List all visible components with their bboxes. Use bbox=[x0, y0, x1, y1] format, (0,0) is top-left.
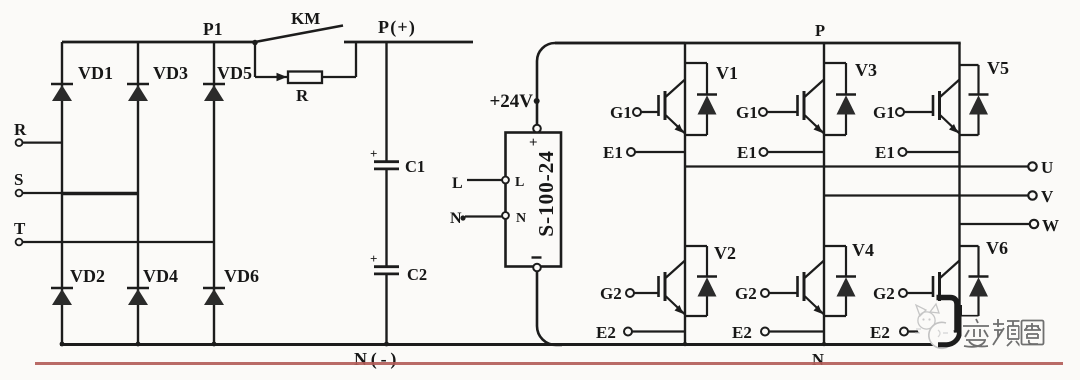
junction: P1 tap to KM and resistor bbox=[252, 40, 258, 46]
diode VD4 bbox=[127, 266, 178, 305]
wire: gate lead G2 leg 2 bbox=[769, 292, 798, 294]
svg-text:E2: E2 bbox=[870, 323, 890, 342]
output terminal U bbox=[1028, 158, 1053, 177]
svg-text:V1: V1 bbox=[716, 63, 738, 83]
transistor V1 (IGBT, upper leg 1) bbox=[659, 63, 739, 134]
wire: gate lead G1 leg 1 bbox=[641, 111, 659, 113]
svg-text:R: R bbox=[14, 120, 27, 139]
diode VD5 bbox=[203, 63, 252, 101]
svg-text:VD4: VD4 bbox=[143, 266, 178, 286]
wire: gate lead G2 leg 1 bbox=[634, 292, 659, 294]
wire: P(+) bus bbox=[344, 41, 473, 44]
watermark text: pin (频) bbox=[991, 317, 1021, 347]
terminal G2 (leg 1) bbox=[600, 284, 634, 303]
svg-text:E2: E2 bbox=[596, 323, 616, 342]
wire: inverter leg 1 vertical (collector-emitter rail) bbox=[684, 43, 686, 345]
wire: N lead bbox=[465, 215, 502, 217]
output terminal W bbox=[1030, 216, 1059, 235]
watermark logo icon (cat in circle) bbox=[915, 304, 954, 348]
transistor V6 (IGBT, lower leg 3) bbox=[933, 238, 1008, 301]
svg-text:G1: G1 bbox=[873, 103, 895, 122]
contactor KM (open blade) bbox=[255, 9, 343, 42]
watermark text: bian (变) bbox=[962, 317, 991, 347]
terminal G2 (leg 2) bbox=[735, 284, 769, 303]
diode across V1 (freewheel) bbox=[685, 63, 717, 135]
terminal E2 (leg 1) bbox=[596, 323, 632, 342]
wire: capacitor branch from P(+) bus to N(-) bus bbox=[385, 42, 387, 162]
wire: L lead bbox=[467, 179, 502, 181]
wire: rectifier column 2 bbox=[137, 42, 139, 345]
wire: V phase output bbox=[824, 194, 1028, 196]
terminal G1 (leg 3) bbox=[873, 103, 904, 122]
wire: W phase output bbox=[960, 223, 1030, 225]
svg-text:E1: E1 bbox=[603, 143, 623, 162]
svg-text:V2: V2 bbox=[714, 243, 736, 263]
pin: module + output bbox=[533, 125, 541, 133]
input terminal T bbox=[14, 219, 26, 245]
svg-text:W: W bbox=[1042, 216, 1059, 235]
capacitor C2 bbox=[370, 251, 427, 284]
diode VD6 bbox=[203, 266, 259, 305]
svg-text:P(+): P(+) bbox=[378, 17, 416, 38]
svg-text:V4: V4 bbox=[852, 240, 874, 260]
diode across V2 (freewheel) bbox=[685, 246, 717, 316]
wire: top bus P1 (rectifier positive rail) bbox=[62, 41, 255, 44]
svg-text:G1: G1 bbox=[610, 103, 632, 122]
wire: emitter lead E2 leg 2 bbox=[769, 330, 824, 332]
pin: module L input bbox=[502, 177, 509, 184]
svg-text:L: L bbox=[515, 175, 524, 190]
wire: inverter leg 3 vertical (collector-emitter rail) bbox=[958, 43, 960, 333]
wire: R phase to column 1 bbox=[22, 142, 62, 144]
svg-text:V5: V5 bbox=[987, 58, 1009, 78]
svg-text:E1: E1 bbox=[737, 143, 757, 162]
diode VD3 bbox=[127, 63, 188, 101]
wire: emitter lead E1 leg 3 bbox=[907, 151, 960, 153]
diode across V5 (freewheel) bbox=[960, 65, 989, 135]
wire: to resistor left bbox=[255, 76, 288, 78]
svg-text:VD5: VD5 bbox=[217, 63, 252, 83]
diode VD2 bbox=[51, 266, 105, 305]
wire: gate lead G2 leg 3 bbox=[907, 292, 933, 294]
input terminal R bbox=[14, 120, 27, 146]
svg-text:VD3: VD3 bbox=[153, 63, 188, 83]
terminal E2 (leg 2) bbox=[732, 323, 769, 342]
wire: gate lead G1 leg 3 bbox=[904, 111, 933, 113]
wire: resistor right to P(+) bus riser bbox=[322, 76, 356, 78]
wire: T phase to column 3 bbox=[22, 241, 214, 243]
wire: U phase output bbox=[685, 165, 1028, 167]
svg-text:VD1: VD1 bbox=[78, 63, 113, 83]
terminal G2 (leg 3) bbox=[873, 284, 907, 303]
svg-text:+: + bbox=[529, 135, 538, 151]
wire: inverter P bus bbox=[555, 42, 961, 45]
wire: emitter lead E1 leg 1 bbox=[635, 151, 685, 153]
terminal E1 (leg 3) bbox=[875, 143, 907, 162]
svg-text:+: + bbox=[370, 146, 377, 161]
svg-text:N(-): N(-) bbox=[354, 349, 400, 370]
transistor V4 (IGBT, lower leg 2) bbox=[798, 240, 875, 315]
input terminal S bbox=[14, 170, 23, 196]
svg-text:P: P bbox=[815, 21, 825, 40]
wire: module - output down to N(-) bus bbox=[537, 271, 562, 345]
wire: emitter lead E2 leg 1 bbox=[632, 330, 685, 332]
pin: module N input bbox=[502, 212, 509, 219]
wire: down from P1 tap to resistor path bbox=[254, 41, 256, 77]
svg-text:E1: E1 bbox=[875, 143, 895, 162]
svg-text:S: S bbox=[14, 170, 23, 189]
watermark text: quan (圈) bbox=[1020, 317, 1047, 347]
diode VD1 bbox=[51, 63, 113, 101]
svg-text:U: U bbox=[1041, 158, 1053, 177]
wire: inverter leg 2 vertical (collector-emitter rail) bbox=[823, 43, 825, 345]
svg-text:G2: G2 bbox=[873, 284, 895, 303]
svg-text:T: T bbox=[14, 219, 26, 238]
svg-text:V: V bbox=[1041, 187, 1054, 206]
resistor R (precharge) bbox=[288, 72, 322, 106]
svg-text:V6: V6 bbox=[986, 238, 1008, 258]
terminal E2 (leg 3) bbox=[870, 323, 908, 342]
diode across V4 (freewheel) bbox=[824, 246, 856, 316]
arrowhead on precharge wire bbox=[277, 73, 288, 81]
wire: gate lead G1 leg 2 bbox=[767, 111, 798, 113]
svg-text:S-100-24: S-100-24 bbox=[534, 150, 558, 236]
svg-text:+24V: +24V bbox=[489, 91, 533, 112]
wire: emitter lead E1 leg 2 bbox=[768, 151, 825, 153]
terminal E1 (leg 1) bbox=[603, 143, 635, 162]
terminal E1 (leg 2) bbox=[737, 143, 768, 162]
pin: module - output bbox=[533, 264, 541, 272]
watermark red underline bbox=[35, 362, 1063, 365]
svg-text:N: N bbox=[812, 350, 824, 369]
svg-text:P1: P1 bbox=[203, 19, 222, 39]
junction dots on N(-) bus bbox=[60, 342, 827, 347]
transistor V2 (IGBT, lower leg 1) bbox=[659, 243, 737, 315]
svg-text:R: R bbox=[296, 86, 309, 105]
svg-text:G2: G2 bbox=[600, 284, 622, 303]
svg-text:VD6: VD6 bbox=[224, 266, 259, 286]
wire: rectifier column 3 bbox=[213, 42, 215, 345]
wire: emitter lead E2 leg 3 bbox=[908, 330, 960, 332]
input terminal N bbox=[450, 210, 466, 227]
svg-text:L: L bbox=[452, 175, 463, 192]
svg-text:VD2: VD2 bbox=[70, 266, 105, 286]
transistor V3 (IGBT, upper leg 2) bbox=[798, 60, 878, 134]
svg-text:E2: E2 bbox=[732, 323, 752, 342]
wire: rectifier column 1 bbox=[61, 42, 63, 345]
wire: +24V riser curving onto inverter P bus bbox=[537, 43, 685, 125]
diode across V3 (freewheel) bbox=[824, 63, 856, 135]
wire: bottom N(-) bus bbox=[60, 330, 960, 345]
svg-text:G2: G2 bbox=[735, 284, 757, 303]
svg-text:N: N bbox=[450, 210, 462, 227]
terminal G1 (leg 2) bbox=[736, 103, 767, 122]
wire: S phase to column 2 bbox=[22, 192, 62, 194]
transistor V6 thick emitter elbow and leg corner (scan-darkened) bbox=[937, 298, 958, 332]
svg-text:N: N bbox=[516, 211, 526, 226]
svg-text:KM: KM bbox=[291, 9, 320, 28]
terminal G1 (leg 1) bbox=[610, 103, 641, 122]
node +24V bbox=[489, 91, 539, 112]
transistor V5 (IGBT, upper leg 3) bbox=[933, 58, 1009, 134]
power supply module U1 S-100-24 bbox=[506, 133, 562, 267]
svg-text:V3: V3 bbox=[855, 60, 877, 80]
svg-text:C2: C2 bbox=[407, 265, 427, 284]
capacitor C1 bbox=[370, 146, 425, 176]
svg-text:G1: G1 bbox=[736, 103, 758, 122]
diode across V6 (freewheel) bbox=[960, 246, 989, 316]
svg-text:+: + bbox=[370, 251, 377, 266]
output terminal V bbox=[1028, 187, 1054, 206]
svg-text:C1: C1 bbox=[405, 157, 425, 176]
